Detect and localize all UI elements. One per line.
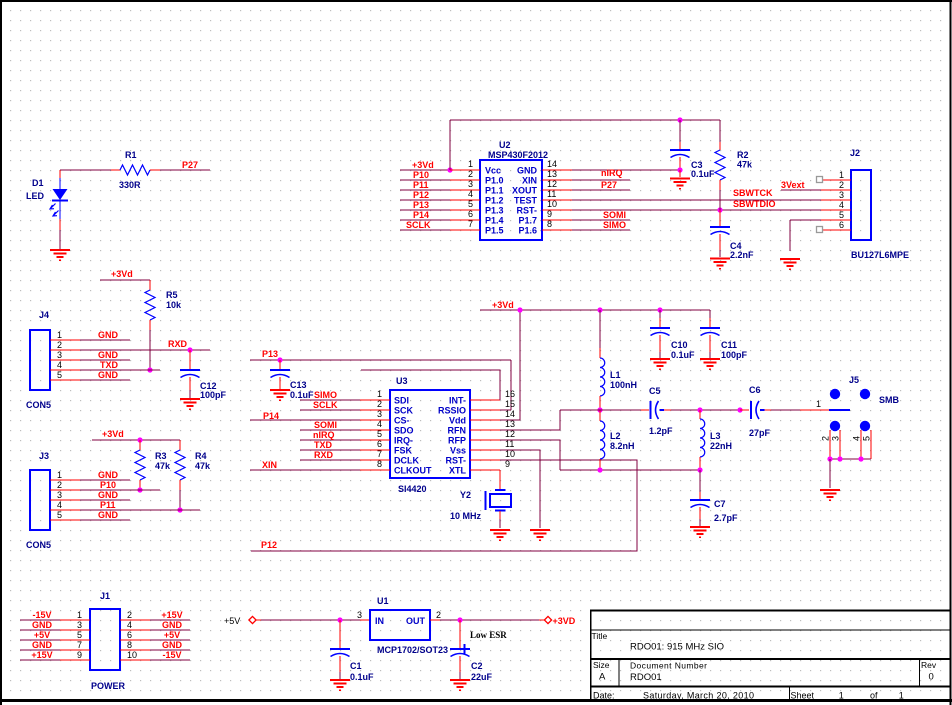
svg-text:3: 3 bbox=[468, 179, 473, 189]
svg-text:330R: 330R bbox=[119, 180, 141, 190]
wire RF line bbox=[560, 409, 800, 411]
capacitor C1 0.1uF bbox=[330, 620, 374, 682]
net label 3Vext bbox=[781, 180, 805, 190]
svg-text:P11: P11 bbox=[413, 180, 429, 190]
svg-text:P12: P12 bbox=[413, 190, 429, 200]
capacitor C2 22uF polarized bbox=[450, 620, 493, 682]
net label P12 bbox=[261, 540, 277, 550]
capacitor C6 27pF bbox=[740, 385, 771, 438]
wire net P13 to U2 bbox=[400, 209, 450, 211]
U3 pin numbers bbox=[377, 389, 515, 469]
svg-text:BU127L6MPE: BU127L6MPE bbox=[851, 250, 909, 260]
wire net P10 from J3 pin2 bbox=[80, 489, 160, 491]
net label +3Vd at R3 R4 bbox=[102, 429, 124, 439]
wire U3 Vss to ground bbox=[500, 450, 540, 528]
wire net SCLK at U3 bbox=[300, 409, 360, 411]
svg-text:4: 4 bbox=[57, 360, 62, 370]
svg-text:XTL: XTL bbox=[449, 466, 467, 476]
ground under C12 bbox=[180, 399, 200, 409]
junction R3 bottom on P10 wire bbox=[137, 487, 142, 492]
ground under C11 bbox=[700, 359, 720, 369]
svg-text:+5V: +5V bbox=[164, 630, 180, 640]
svg-text:3: 3 bbox=[831, 436, 841, 441]
svg-text:C6: C6 bbox=[749, 385, 761, 395]
net label GND J3-3 bbox=[98, 490, 119, 500]
net label SCLK at U3 bbox=[313, 400, 338, 410]
ground under C3 bbox=[670, 179, 690, 189]
wire U3 INT- stub bbox=[361, 370, 500, 400]
wire net P11 from J3 pin4 bbox=[80, 509, 200, 511]
svg-text:RFN: RFN bbox=[448, 426, 467, 436]
svg-text:P13: P13 bbox=[262, 349, 278, 359]
net label GND J1 left bbox=[32, 640, 53, 650]
crystal Y2 10 MHz bbox=[450, 470, 511, 528]
junction C1 on +5V wire bbox=[337, 617, 342, 622]
wire net SBWTDIO U2 RST to J2 pin 4 bbox=[572, 209, 821, 211]
svg-text:nIRQ: nIRQ bbox=[313, 430, 335, 440]
junction J5 pin3 bbox=[837, 456, 842, 461]
svg-text:P27: P27 bbox=[601, 180, 617, 190]
net label P13 bbox=[413, 200, 429, 210]
net label RXD bbox=[168, 339, 188, 349]
junction RF line to L3 bbox=[697, 407, 702, 412]
junction rail to L1 bbox=[597, 307, 602, 312]
wire J5 ground bus bbox=[830, 458, 871, 460]
wire J1 left pin 9 bbox=[20, 659, 60, 661]
regulator U1 MCP1702/SOT23 bbox=[360, 596, 448, 655]
net label SBWTCK bbox=[733, 188, 773, 198]
ground under C4 bbox=[710, 259, 730, 269]
net label -15V J1 right bbox=[162, 650, 181, 660]
svg-text:3: 3 bbox=[839, 190, 844, 200]
wire U3 RFP to match network bbox=[500, 440, 560, 470]
wire net P13 to U3 RSSIO bbox=[250, 360, 511, 410]
no-connect square J2 pin 1 bbox=[817, 177, 823, 183]
J2 pin numbers bbox=[839, 170, 844, 230]
connector J4 CON5 bbox=[26, 310, 80, 410]
svg-text:+3Vd: +3Vd bbox=[102, 429, 124, 439]
ground under D1 bbox=[50, 250, 70, 260]
ground under Y2 bbox=[490, 530, 510, 540]
resistor R1 330R bbox=[111, 150, 160, 190]
wire U3 Vdd to +3Vd rail bbox=[500, 310, 520, 420]
svg-text:P14: P14 bbox=[263, 411, 279, 421]
wire U2 GND pin to C3 bottom bbox=[572, 169, 680, 171]
svg-text:47k: 47k bbox=[195, 461, 211, 471]
net label +3Vd at U2 pin 1 bbox=[412, 160, 434, 170]
svg-text:2: 2 bbox=[57, 340, 62, 350]
svg-text:L1: L1 bbox=[610, 370, 621, 380]
svg-text:3: 3 bbox=[77, 620, 82, 630]
wire RF bottom rail bbox=[560, 469, 700, 471]
wire J4 pin3 GND bbox=[80, 359, 130, 361]
svg-text:Low ESR: Low ESR bbox=[470, 630, 507, 640]
svg-text:POWER: POWER bbox=[91, 681, 126, 691]
svg-text:4: 4 bbox=[468, 189, 473, 199]
svg-text:1: 1 bbox=[839, 691, 844, 701]
svg-text:8.2nH: 8.2nH bbox=[610, 441, 635, 451]
ground under J5 bbox=[820, 490, 840, 500]
title block header Title bbox=[592, 631, 608, 641]
net label GND J1 right bbox=[162, 640, 183, 650]
svg-text:14: 14 bbox=[547, 159, 557, 169]
svg-text:SIMO: SIMO bbox=[603, 220, 626, 230]
svg-text:47k: 47k bbox=[155, 461, 171, 471]
junction C3 bottom with U2 GND bbox=[677, 167, 682, 172]
wire D1 anode lead bbox=[59, 170, 61, 178]
svg-text:+15V: +15V bbox=[161, 610, 182, 620]
svg-text:C5: C5 bbox=[649, 386, 661, 396]
svg-text:L2: L2 bbox=[610, 431, 621, 441]
svg-text:5: 5 bbox=[377, 429, 382, 439]
transceiver U3 SI4420 bbox=[360, 376, 500, 494]
svg-text:5: 5 bbox=[57, 510, 62, 520]
wire C3 to ground bbox=[679, 170, 681, 177]
wire J1 right pin 2 bbox=[150, 619, 190, 621]
svg-text:7: 7 bbox=[77, 640, 82, 650]
J1 pin numbers bbox=[77, 610, 137, 660]
svg-text:9: 9 bbox=[547, 209, 552, 219]
net label -15V J1 left bbox=[32, 610, 51, 620]
net label GND J4-1 bbox=[98, 330, 119, 340]
svg-text:1: 1 bbox=[377, 389, 382, 399]
wire J1 right pin 10 bbox=[150, 659, 190, 661]
junction bottom rail L3 C7 bbox=[697, 467, 702, 472]
connector J5 SMB bbox=[829, 375, 900, 459]
capacitor C4 2.2nF bbox=[710, 210, 754, 260]
wire net P11 to U2 bbox=[400, 189, 450, 191]
svg-text:+3Vd: +3Vd bbox=[111, 269, 133, 279]
svg-text:-15V: -15V bbox=[162, 650, 181, 660]
net label SIMO at U3 bbox=[314, 390, 337, 400]
svg-text:CON5: CON5 bbox=[26, 400, 51, 410]
svg-text:14: 14 bbox=[505, 409, 515, 419]
svg-text:0: 0 bbox=[929, 672, 934, 683]
net label P10 at J3 bbox=[100, 480, 116, 490]
junction P13 with C13 bbox=[277, 357, 282, 362]
svg-text:+3Vd: +3Vd bbox=[412, 160, 434, 170]
inductor L1 100nH bbox=[600, 310, 637, 410]
svg-text:J5: J5 bbox=[849, 375, 859, 385]
wire J4 pin1 GND bbox=[80, 339, 130, 341]
capacitor C10 0.1uF bbox=[650, 310, 695, 360]
svg-text:Vdd: Vdd bbox=[449, 416, 466, 426]
wire J1 left pin 7 bbox=[20, 649, 60, 651]
junction rail to C3 bbox=[677, 117, 682, 122]
svg-text:P14: P14 bbox=[413, 210, 429, 220]
svg-text:RDO01: 915 MHz SIO: RDO01: 915 MHz SIO bbox=[630, 642, 724, 653]
svg-text:+15V: +15V bbox=[31, 650, 52, 660]
net label RXD at U3 bbox=[314, 450, 334, 460]
inductor L3 22nH bbox=[700, 410, 732, 470]
wire U1 OUT to +3VD bbox=[440, 619, 545, 621]
net label nIRQ at U3 bbox=[313, 430, 335, 440]
svg-text:SBWTCK: SBWTCK bbox=[733, 188, 773, 198]
svg-text:TEST: TEST bbox=[514, 196, 538, 206]
svg-text:7: 7 bbox=[377, 449, 382, 459]
net label SOMI at U2 bbox=[603, 210, 626, 220]
wire net SOMI at U2 bbox=[572, 219, 630, 221]
svg-text:RDO01: RDO01 bbox=[630, 672, 662, 683]
svg-text:Date:: Date: bbox=[593, 691, 615, 701]
svg-text:P1.5: P1.5 bbox=[485, 226, 504, 236]
svg-text:Vss: Vss bbox=[450, 446, 466, 456]
svg-text:Saturday, March 20, 2010: Saturday, March 20, 2010 bbox=[643, 691, 754, 701]
svg-text:P1.4: P1.4 bbox=[485, 216, 504, 226]
svg-text:U1: U1 bbox=[377, 596, 389, 606]
svg-text:D1: D1 bbox=[32, 178, 44, 188]
svg-text:15: 15 bbox=[505, 399, 515, 409]
wire net P12 to U2 bbox=[400, 199, 450, 201]
svg-text:10 MHz: 10 MHz bbox=[450, 511, 482, 521]
svg-text:P27: P27 bbox=[182, 160, 198, 170]
capacitor C3 0.1uF bbox=[670, 120, 715, 179]
resistor R5 10k bbox=[145, 280, 182, 370]
terminal label +5V bbox=[224, 616, 240, 626]
svg-text:0.1uF: 0.1uF bbox=[290, 390, 314, 400]
svg-text:3Vext: 3Vext bbox=[781, 180, 805, 190]
svg-text:GND: GND bbox=[32, 640, 53, 650]
svg-text:8: 8 bbox=[127, 640, 132, 650]
wire net nIRQ at U3 bbox=[300, 439, 360, 441]
wire net RXD from J4 pin2 bbox=[80, 349, 210, 351]
svg-text:P13: P13 bbox=[413, 200, 429, 210]
wire J1 right pin 4 bbox=[150, 629, 190, 631]
svg-text:GND: GND bbox=[517, 166, 538, 176]
svg-text:R1: R1 bbox=[125, 150, 137, 160]
svg-text:XIN: XIN bbox=[522, 176, 537, 186]
svg-text:GND: GND bbox=[98, 370, 119, 380]
svg-text:12: 12 bbox=[547, 179, 557, 189]
wire J1 left pin 3 bbox=[20, 629, 60, 631]
svg-text:GND: GND bbox=[162, 640, 183, 650]
svg-text:SDI: SDI bbox=[394, 396, 409, 406]
svg-text:4: 4 bbox=[852, 436, 862, 441]
svg-text:22uF: 22uF bbox=[471, 672, 493, 682]
svg-text:22nH: 22nH bbox=[710, 441, 732, 451]
junction J5 pin4 bbox=[858, 456, 863, 461]
title block Size A bbox=[593, 660, 610, 683]
resistor R4 47k bbox=[175, 440, 211, 510]
wire net P27 at U2 bbox=[572, 189, 630, 191]
wire J1 right pin 8 bbox=[150, 649, 190, 651]
svg-text:Y2: Y2 bbox=[460, 490, 471, 500]
junction rail to U3 Vdd bbox=[517, 307, 522, 312]
wire J3 pin5 GND bbox=[80, 519, 130, 521]
svg-text:J3: J3 bbox=[39, 451, 49, 461]
net label +15V J1 left bbox=[31, 650, 52, 660]
svg-text:SMB: SMB bbox=[879, 395, 900, 405]
svg-text:10: 10 bbox=[547, 199, 557, 209]
svg-text:GND: GND bbox=[162, 620, 183, 630]
junction RF line at C6 bbox=[737, 407, 742, 412]
U1 pin numbers bbox=[357, 610, 441, 620]
svg-text:J2: J2 bbox=[850, 148, 860, 158]
svg-text:GND: GND bbox=[98, 490, 119, 500]
svg-text:100nH: 100nH bbox=[610, 380, 637, 390]
svg-text:P1.6: P1.6 bbox=[518, 226, 537, 236]
wire J1 right pin 6 bbox=[150, 639, 190, 641]
svg-text:P10: P10 bbox=[413, 170, 429, 180]
J3 pin numbers bbox=[57, 470, 62, 520]
J5 pin numbers 2 3 4 5 bbox=[821, 436, 872, 441]
svg-text:+3Vd: +3Vd bbox=[492, 300, 514, 310]
net label GND J4-5 bbox=[98, 370, 119, 380]
svg-text:+3VD: +3VD bbox=[553, 616, 576, 626]
wire +3Vd RF rail bbox=[480, 309, 710, 311]
wire J1 left pin 5 bbox=[20, 639, 60, 641]
svg-text:10k: 10k bbox=[166, 300, 182, 310]
svg-text:Sheet: Sheet bbox=[791, 691, 815, 701]
terminal label +3VD bbox=[553, 616, 576, 626]
ground under C2 bbox=[450, 680, 470, 690]
capacitor C13 0.1uF bbox=[270, 360, 314, 400]
title block Rev 0 bbox=[921, 660, 937, 683]
svg-text:100pF: 100pF bbox=[200, 390, 227, 400]
wire +3Vd rail to R3 R4 bbox=[92, 439, 180, 441]
wire +3Vd rail up and over to C3 R2 bbox=[450, 120, 720, 170]
wire net P27 from D1 anode to R1 and label stub bbox=[60, 169, 210, 171]
svg-text:GND: GND bbox=[32, 620, 53, 630]
svg-text:SCLK: SCLK bbox=[313, 400, 338, 410]
svg-text:SCK: SCK bbox=[394, 406, 414, 416]
wire net 3Vext to J2 pin 2 bbox=[781, 189, 821, 191]
svg-text:XOUT: XOUT bbox=[512, 186, 538, 196]
net label P12 bbox=[413, 190, 429, 200]
svg-text:Vcc: Vcc bbox=[485, 166, 501, 176]
svg-text:GND: GND bbox=[98, 350, 119, 360]
wire net XIN at U3 bbox=[250, 469, 360, 471]
svg-text:4: 4 bbox=[127, 620, 132, 630]
svg-text:4: 4 bbox=[839, 200, 844, 210]
net label nIRQ bbox=[601, 168, 623, 178]
title text RDO01 915 MHz SIO bbox=[630, 642, 724, 653]
svg-text:L3: L3 bbox=[710, 431, 721, 441]
svg-text:P1.3: P1.3 bbox=[485, 206, 504, 216]
svg-text:C2: C2 bbox=[471, 661, 483, 671]
junction bottom rail L2 bbox=[597, 467, 602, 472]
capacitor C11 100pF bbox=[700, 310, 748, 360]
net label SIMO at U2 bbox=[603, 220, 626, 230]
svg-text:SOMI: SOMI bbox=[314, 420, 337, 430]
wire net P14 to U2 bbox=[400, 219, 450, 221]
svg-text:5: 5 bbox=[468, 199, 473, 209]
svg-text:IRQ-: IRQ- bbox=[394, 436, 413, 446]
terminal +5V diamond bbox=[249, 616, 256, 623]
svg-text:CON5: CON5 bbox=[26, 540, 51, 550]
svg-text:SOMI: SOMI bbox=[603, 210, 626, 220]
svg-text:RXD: RXD bbox=[168, 339, 188, 349]
wire net nIRQ at U2 bbox=[572, 179, 630, 181]
junction rail to C10 bbox=[657, 307, 662, 312]
capacitor C12 100pF bbox=[180, 350, 227, 400]
resistor R3 47k bbox=[135, 440, 171, 490]
svg-text:C10: C10 bbox=[671, 340, 688, 350]
svg-text:RSSIO: RSSIO bbox=[438, 406, 466, 416]
net label P27 at U2 bbox=[601, 180, 617, 190]
svg-text:2: 2 bbox=[821, 436, 831, 441]
svg-text:SBWTDIO: SBWTDIO bbox=[733, 199, 776, 209]
wire J1 left pin 1 bbox=[20, 619, 60, 621]
net label +3Vd RF rail bbox=[492, 300, 514, 310]
no-connect square J2 pin 6 bbox=[817, 227, 823, 233]
J5 pin 1 number bbox=[816, 399, 821, 409]
svg-text:INT-: INT- bbox=[449, 396, 466, 406]
svg-text:27pF: 27pF bbox=[749, 428, 771, 438]
title block frame bbox=[590, 610, 950, 699]
wire net RXD at U3 bbox=[300, 459, 360, 461]
svg-text:8: 8 bbox=[377, 459, 382, 469]
svg-text:LED: LED bbox=[26, 191, 45, 201]
inductor L2 8.2nH bbox=[600, 410, 635, 470]
svg-text:FSK: FSK bbox=[394, 446, 413, 456]
svg-text:2: 2 bbox=[436, 610, 441, 620]
svg-text:P1.0: P1.0 bbox=[485, 176, 504, 186]
svg-text:4: 4 bbox=[377, 419, 382, 429]
net label SBWTDIO bbox=[733, 199, 776, 209]
wire J5 pin 1 lead bbox=[800, 409, 829, 411]
svg-text:3: 3 bbox=[57, 490, 62, 500]
svg-text:2.7pF: 2.7pF bbox=[714, 513, 738, 523]
wire J3 pin1 GND bbox=[80, 479, 130, 481]
svg-text:R5: R5 bbox=[166, 290, 178, 300]
junction L1 L2 on RF line bbox=[597, 407, 602, 412]
title block Date Sheet row bbox=[593, 691, 904, 701]
svg-text:7: 7 bbox=[468, 219, 473, 229]
wire net P14 at U3 bbox=[250, 419, 360, 421]
ground under C13 bbox=[270, 390, 290, 400]
svg-text:47k: 47k bbox=[737, 160, 753, 170]
net label GND J3-5 bbox=[98, 510, 119, 520]
svg-text:CS-: CS- bbox=[394, 416, 410, 426]
svg-text:MCP1702/SOT23: MCP1702/SOT23 bbox=[377, 645, 448, 655]
svg-text:2: 2 bbox=[127, 610, 132, 620]
svg-text:P1.7: P1.7 bbox=[518, 216, 537, 226]
net label SOMI at U3 bbox=[314, 420, 337, 430]
net label P14 bbox=[263, 411, 279, 421]
ground under C7 bbox=[690, 527, 710, 537]
wire net SOMI at U3 bbox=[300, 429, 360, 431]
svg-text:IN: IN bbox=[375, 616, 384, 626]
net label TXD bbox=[100, 360, 119, 370]
svg-text:5: 5 bbox=[862, 436, 872, 441]
svg-text:RST-: RST- bbox=[445, 456, 466, 466]
net label P11 bbox=[413, 180, 429, 190]
ground under J2 pin 5 bbox=[780, 259, 800, 269]
connector J2 BU127L6MPE bbox=[821, 148, 909, 260]
junction C2 on +3VD wire bbox=[457, 617, 462, 622]
svg-text:P12: P12 bbox=[261, 540, 277, 550]
net label SCLK bbox=[406, 220, 431, 230]
svg-text:2.2nF: 2.2nF bbox=[730, 250, 754, 260]
svg-text:Document Number: Document Number bbox=[630, 661, 707, 671]
U2 pin numbers bbox=[468, 159, 557, 229]
junction at U2 pin 1 bbox=[447, 167, 452, 172]
wire +3Vd to U2 pin 1 bbox=[400, 169, 450, 171]
svg-text:J4: J4 bbox=[39, 310, 49, 320]
svg-text:6: 6 bbox=[377, 439, 382, 449]
svg-text:+5V: +5V bbox=[224, 616, 240, 626]
svg-text:2: 2 bbox=[468, 169, 473, 179]
wire net P10 to U2 bbox=[400, 179, 450, 181]
svg-text:RXD: RXD bbox=[314, 450, 334, 460]
net label XIN bbox=[262, 460, 277, 470]
net label GND J4-3 bbox=[98, 350, 119, 360]
note Low ESR bbox=[470, 630, 507, 640]
J4 pin numbers bbox=[57, 330, 62, 380]
svg-text:XIN: XIN bbox=[262, 460, 277, 470]
wire net SBWTCK U2 TEST to J2 pin 3 bbox=[572, 199, 821, 201]
